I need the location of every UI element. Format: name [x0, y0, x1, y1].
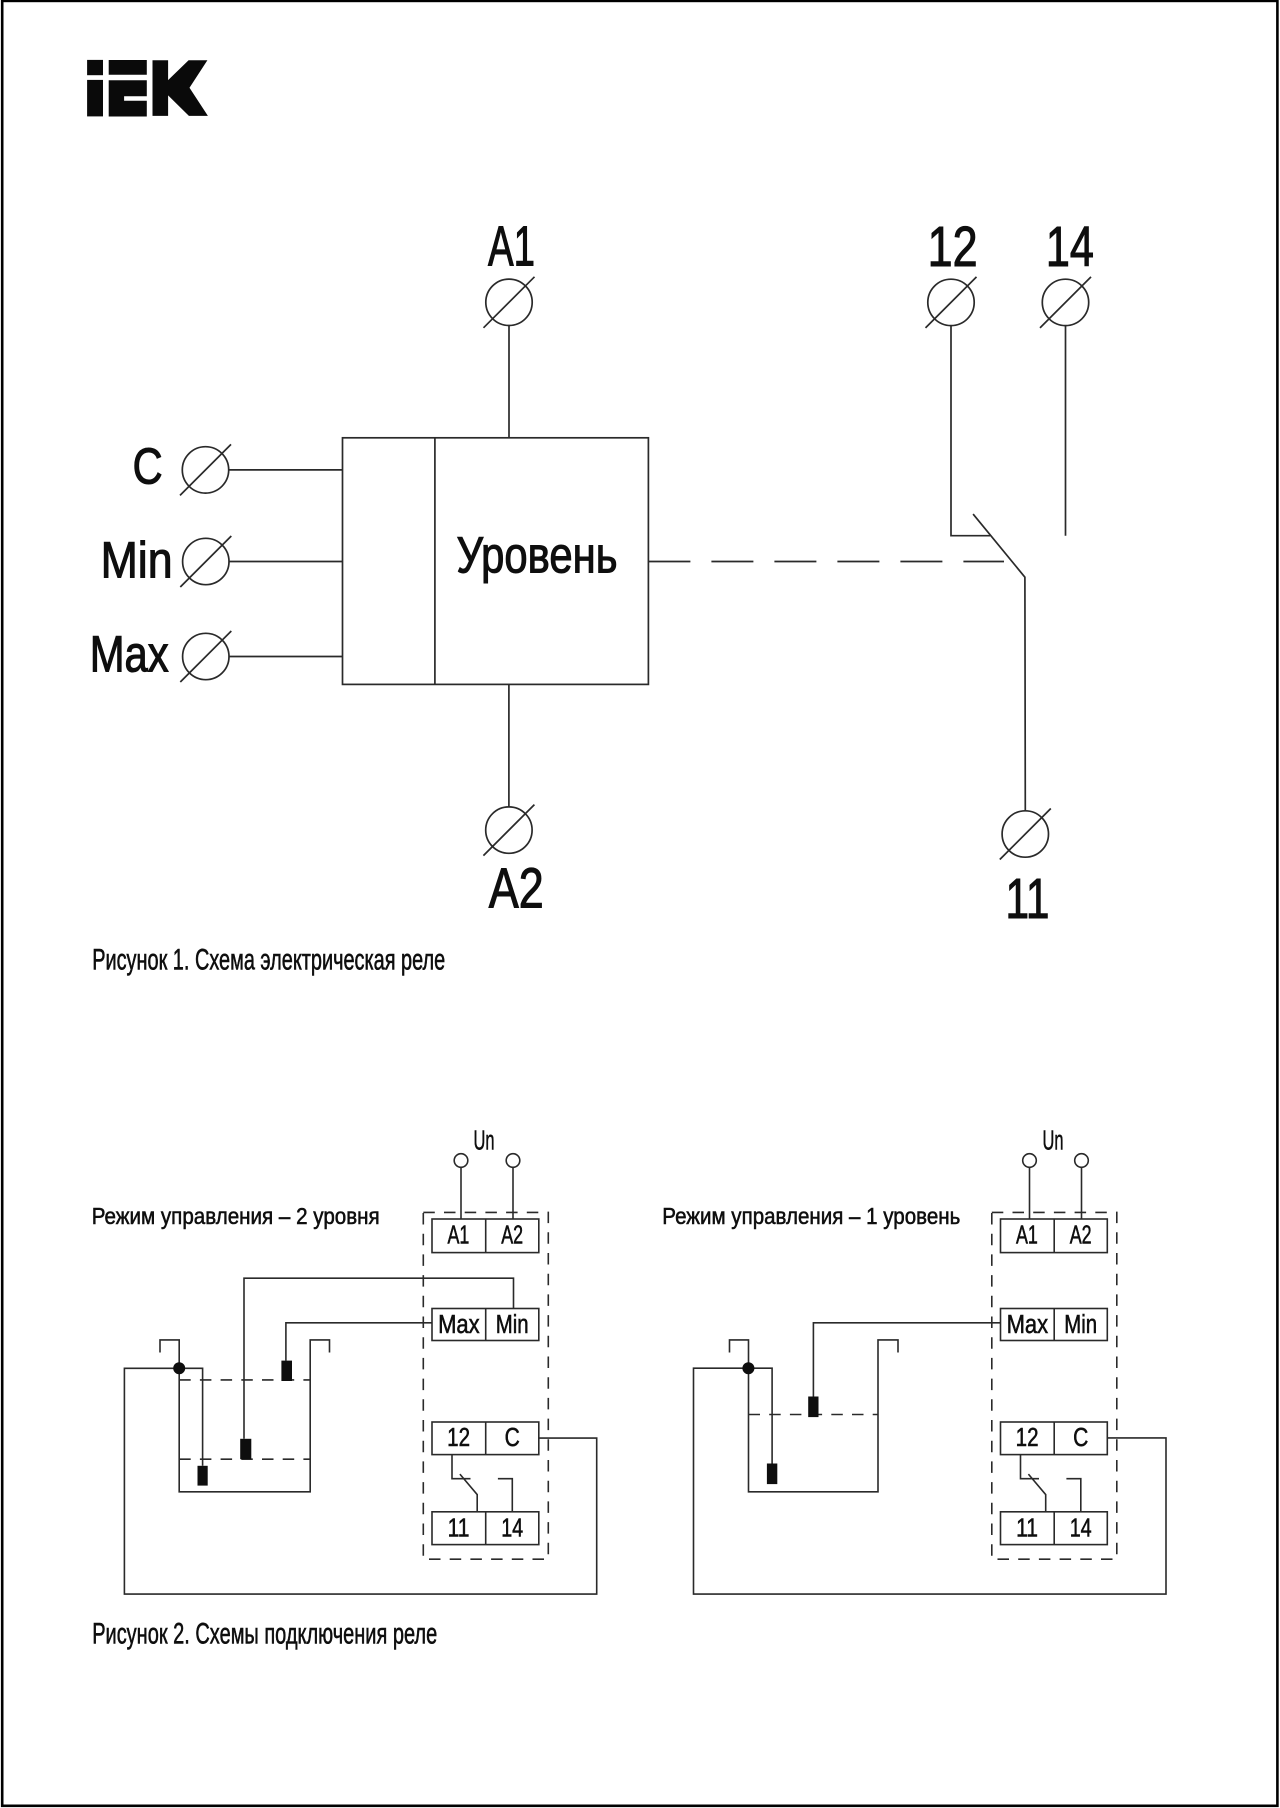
svg-text:12: 12 — [1016, 1424, 1039, 1452]
svg-text:Уровень: Уровень — [457, 527, 618, 584]
svg-text:Max: Max — [90, 626, 169, 683]
svg-text:12: 12 — [928, 215, 978, 279]
svg-text:Un: Un — [474, 1125, 495, 1156]
svg-text:Un: Un — [1043, 1125, 1064, 1156]
svg-text:Режим управления – 1 уровень: Режим управления – 1 уровень — [662, 1203, 960, 1229]
svg-text:Рисунок 2. Схемы подключения р: Рисунок 2. Схемы подключения реле — [92, 1617, 437, 1650]
svg-text:14: 14 — [1046, 215, 1094, 279]
svg-text:Min: Min — [101, 532, 173, 589]
svg-text:Min: Min — [1064, 1311, 1097, 1339]
svg-text:A1: A1 — [447, 1222, 469, 1250]
svg-text:C: C — [505, 1424, 520, 1452]
svg-text:14: 14 — [501, 1515, 523, 1543]
svg-text:Рисунок 1. Схема электрическая: Рисунок 1. Схема электрическая реле — [92, 943, 445, 976]
svg-text:11: 11 — [448, 1515, 470, 1543]
svg-text:A2: A2 — [489, 856, 544, 920]
svg-text:C: C — [1073, 1424, 1088, 1452]
svg-text:A1: A1 — [1016, 1222, 1038, 1250]
svg-text:A2: A2 — [501, 1222, 523, 1250]
svg-text:Режим управления – 2 уровня: Режим управления – 2 уровня — [92, 1203, 380, 1229]
svg-text:11: 11 — [1016, 1515, 1038, 1543]
svg-text:12: 12 — [447, 1424, 470, 1452]
svg-text:C: C — [133, 438, 163, 495]
svg-text:Min: Min — [496, 1311, 529, 1339]
svg-text:Max: Max — [438, 1311, 480, 1339]
svg-text:14: 14 — [1070, 1515, 1092, 1543]
svg-text:A2: A2 — [1070, 1222, 1092, 1250]
svg-text:11: 11 — [1006, 867, 1050, 931]
svg-text:Max: Max — [1007, 1311, 1049, 1339]
svg-text:A1: A1 — [488, 214, 535, 278]
